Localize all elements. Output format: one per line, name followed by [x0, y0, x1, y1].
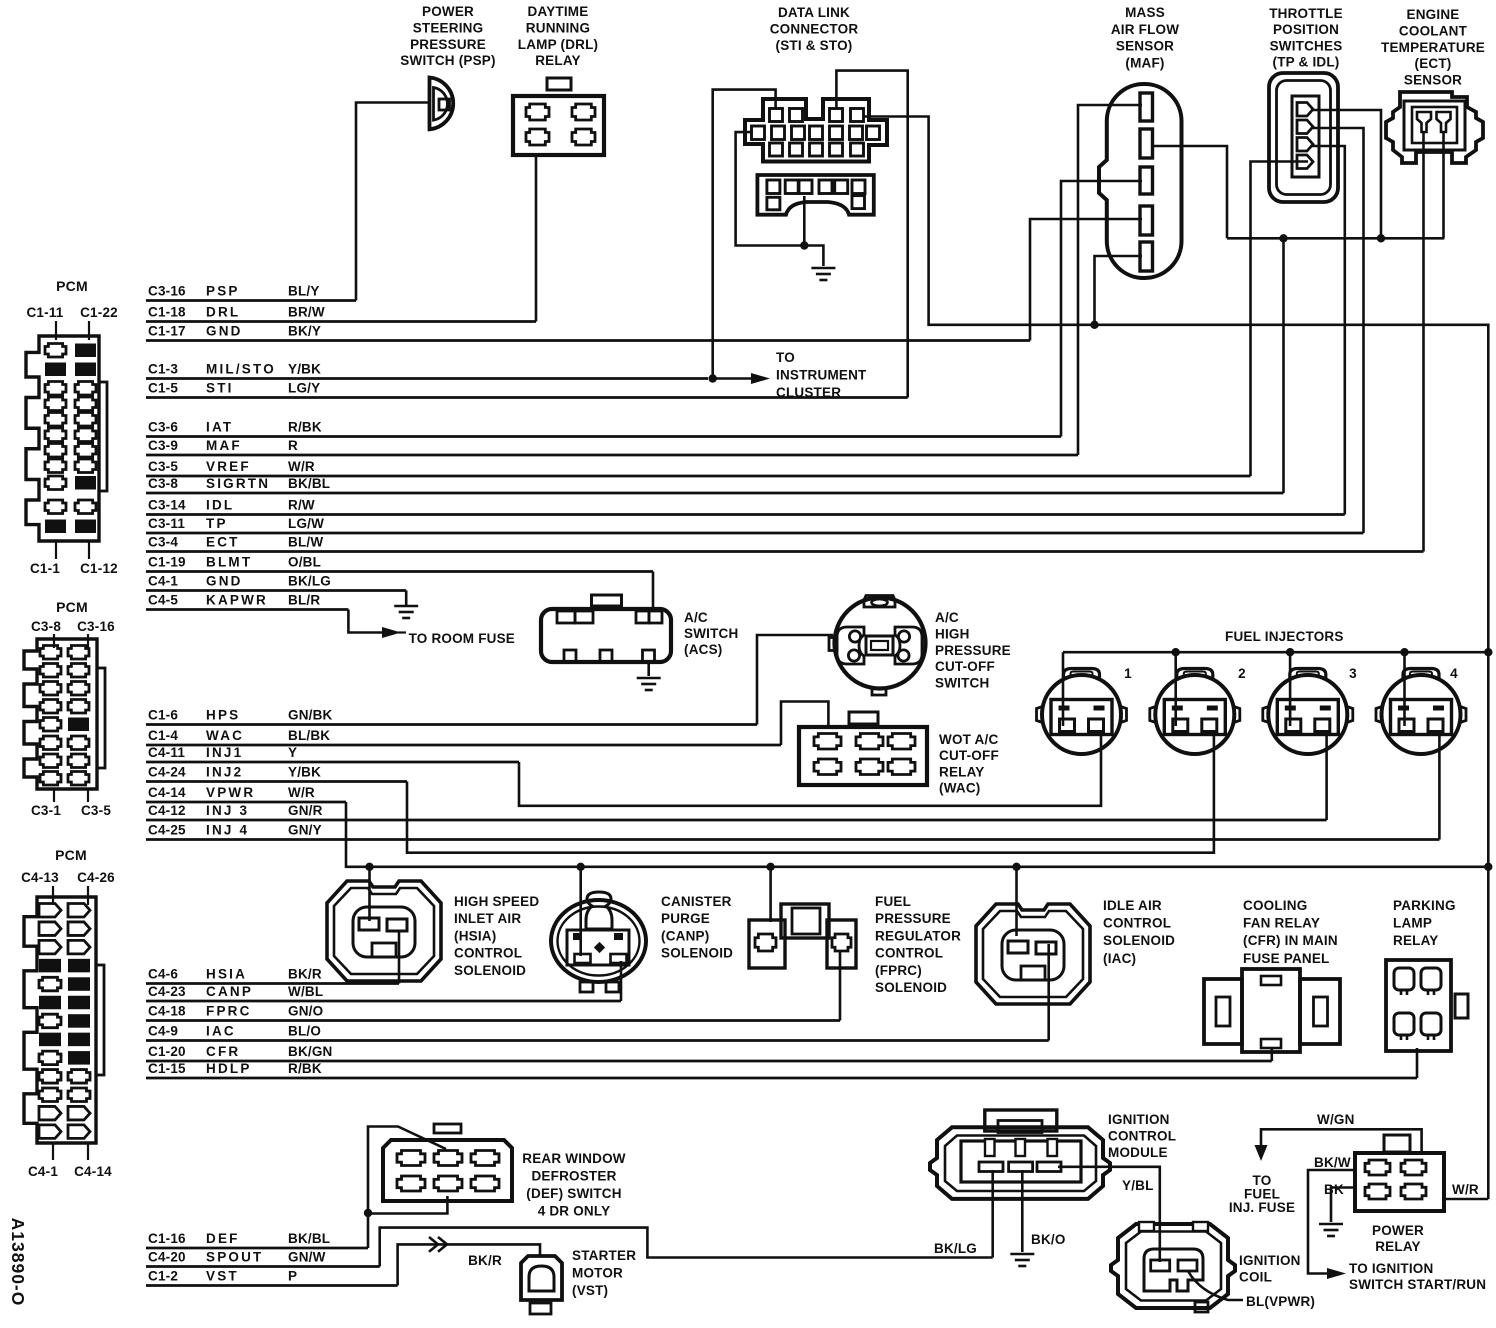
svg-text:BK/O: BK/O [1031, 1232, 1066, 1247]
svg-text:THROTTLE: THROTTLE [1269, 6, 1343, 21]
svg-text:REAR WINDOW: REAR WINDOW [522, 1151, 625, 1166]
svg-text:SENSOR: SENSOR [1404, 73, 1462, 88]
svg-text:C4-20: C4-20 [148, 1250, 186, 1265]
svg-text:RELAY: RELAY [535, 53, 581, 68]
svg-text:C4-12: C4-12 [148, 803, 186, 818]
svg-text:PCM: PCM [55, 847, 87, 863]
svg-text:(TP & IDL): (TP & IDL) [1273, 55, 1340, 70]
svg-text:DEF: DEF [206, 1231, 240, 1246]
svg-text:HIGH SPEED: HIGH SPEED [454, 894, 539, 909]
svg-text:BL/Y: BL/Y [288, 284, 320, 299]
svg-text:SWITCH: SWITCH [935, 676, 989, 691]
svg-text:Y: Y [288, 745, 297, 760]
svg-text:C3-5: C3-5 [148, 459, 178, 474]
svg-text:(WAC): (WAC) [939, 781, 981, 796]
svg-text:LG/W: LG/W [288, 516, 324, 531]
svg-text:1: 1 [1124, 666, 1132, 681]
svg-text:C3-5: C3-5 [81, 803, 111, 818]
svg-text:SWITCHES: SWITCHES [1270, 38, 1343, 53]
svg-text:DATA LINK: DATA LINK [778, 5, 850, 20]
svg-text:(DEF) SWITCH: (DEF) SWITCH [526, 1186, 621, 1201]
svg-text:TO ROOM FUSE: TO ROOM FUSE [409, 631, 515, 646]
svg-text:C4-1: C4-1 [28, 1164, 58, 1179]
svg-text:POWER: POWER [422, 4, 474, 19]
svg-text:C4-6: C4-6 [148, 967, 178, 982]
svg-text:C1-11: C1-11 [26, 305, 63, 320]
svg-text:STI: STI [206, 381, 234, 396]
svg-text:C3-11: C3-11 [148, 516, 185, 531]
svg-text:INJ1: INJ1 [206, 745, 243, 760]
svg-text:C1-4: C1-4 [148, 728, 178, 743]
svg-text:CANISTER: CANISTER [661, 894, 732, 909]
svg-text:HSIA: HSIA [206, 967, 247, 982]
svg-text:DAYTIME: DAYTIME [528, 4, 589, 19]
svg-text:ENGINE: ENGINE [1407, 7, 1460, 22]
svg-text:SENSOR: SENSOR [1116, 39, 1174, 54]
svg-text:CUT-OFF: CUT-OFF [939, 748, 999, 763]
svg-text:COIL: COIL [1239, 1270, 1272, 1285]
svg-text:INJ. FUSE: INJ. FUSE [1229, 1200, 1295, 1215]
svg-text:C1-19: C1-19 [148, 555, 186, 570]
svg-text:(IAC): (IAC) [1103, 951, 1136, 966]
svg-text:A13890-O: A13890-O [8, 1218, 28, 1307]
svg-text:INLET AIR: INLET AIR [454, 911, 521, 926]
svg-text:C1-2: C1-2 [148, 1269, 178, 1284]
svg-text:GN/Y: GN/Y [288, 823, 322, 838]
svg-text:INJ2: INJ2 [206, 765, 243, 780]
svg-text:DRL: DRL [206, 305, 240, 320]
svg-text:C4-13: C4-13 [21, 870, 59, 885]
svg-text:IGNITION: IGNITION [1239, 1253, 1301, 1268]
svg-text:R/BK: R/BK [288, 420, 322, 435]
svg-text:GN/O: GN/O [288, 1004, 323, 1019]
svg-text:R/W: R/W [288, 498, 315, 513]
svg-text:WAC: WAC [206, 728, 244, 743]
svg-text:PCM: PCM [56, 278, 88, 294]
svg-text:GN/W: GN/W [288, 1250, 326, 1265]
svg-text:POWER: POWER [1372, 1223, 1424, 1238]
svg-text:TEMPERATURE: TEMPERATURE [1381, 40, 1485, 55]
svg-text:CFR: CFR [206, 1044, 240, 1059]
svg-text:TP: TP [206, 516, 228, 531]
svg-text:TO IGNITION: TO IGNITION [1349, 1261, 1433, 1276]
svg-text:C1-15: C1-15 [148, 1061, 186, 1076]
svg-text:LG/Y: LG/Y [288, 381, 320, 396]
svg-text:(CFR) IN MAIN: (CFR) IN MAIN [1243, 933, 1338, 948]
svg-text:C4-25: C4-25 [148, 823, 186, 838]
svg-text:INSTRUMENT: INSTRUMENT [776, 367, 867, 382]
svg-text:P: P [288, 1269, 297, 1284]
svg-text:IDLE AIR: IDLE AIR [1103, 898, 1162, 913]
svg-text:VPWR: VPWR [206, 785, 255, 800]
svg-text:MOTOR: MOTOR [572, 1265, 623, 1280]
svg-text:SWITCH: SWITCH [684, 626, 738, 641]
svg-text:BK/R: BK/R [468, 1253, 502, 1268]
svg-text:RUNNING: RUNNING [526, 20, 590, 35]
svg-text:PURGE: PURGE [661, 911, 710, 926]
svg-text:SOLENOID: SOLENOID [661, 946, 733, 961]
svg-text:MIL/STO: MIL/STO [206, 362, 276, 377]
svg-text:Y/BL: Y/BL [1122, 1178, 1154, 1193]
svg-text:GN/BK: GN/BK [288, 708, 333, 723]
svg-text:(STI & STO): (STI & STO) [776, 38, 853, 53]
svg-text:C4-11: C4-11 [148, 745, 185, 760]
svg-text:CONTROL: CONTROL [1108, 1129, 1176, 1144]
svg-text:SOLENOID: SOLENOID [454, 963, 526, 978]
svg-text:W/R: W/R [1452, 1182, 1479, 1197]
svg-text:C3-8: C3-8 [31, 619, 61, 634]
svg-text:IDL: IDL [206, 498, 234, 513]
svg-text:HPS: HPS [206, 708, 240, 723]
svg-text:A/C: A/C [684, 610, 708, 625]
svg-text:C4-18: C4-18 [148, 1004, 186, 1019]
svg-text:C4-26: C4-26 [77, 870, 115, 885]
svg-text:BR/W: BR/W [288, 305, 325, 320]
svg-text:(CANP): (CANP) [661, 928, 709, 943]
svg-text:LAMP: LAMP [1393, 916, 1432, 931]
svg-text:STARTER: STARTER [572, 1248, 636, 1263]
svg-text:FUSE PANEL: FUSE PANEL [1243, 951, 1330, 966]
svg-text:C4-14: C4-14 [148, 785, 186, 800]
svg-text:BK/LG: BK/LG [934, 1241, 977, 1256]
svg-text:C1-16: C1-16 [148, 1231, 186, 1246]
svg-text:INJ 4: INJ 4 [206, 823, 249, 838]
svg-text:C3-9: C3-9 [148, 438, 178, 453]
svg-text:C3-6: C3-6 [148, 420, 178, 435]
svg-text:CANP: CANP [206, 984, 253, 999]
svg-text:SPOUT: SPOUT [206, 1250, 264, 1265]
svg-text:C1-18: C1-18 [148, 305, 186, 320]
svg-text:C1-17: C1-17 [148, 324, 186, 339]
svg-text:Y/BK: Y/BK [288, 362, 321, 377]
svg-text:RELAY: RELAY [1375, 1239, 1421, 1254]
svg-text:C1-1: C1-1 [30, 561, 60, 576]
svg-text:RELAY: RELAY [1393, 933, 1439, 948]
svg-text:GND: GND [206, 324, 243, 339]
svg-text:A/C: A/C [935, 610, 959, 625]
svg-text:C1-6: C1-6 [148, 708, 178, 723]
svg-text:TO: TO [776, 350, 795, 365]
svg-text:BL/BK: BL/BK [288, 728, 330, 743]
svg-text:C3-14: C3-14 [148, 498, 186, 513]
svg-text:C4-14: C4-14 [74, 1164, 112, 1179]
svg-text:O/BL: O/BL [288, 555, 321, 570]
svg-text:SWITCH (PSP): SWITCH (PSP) [400, 53, 495, 68]
svg-text:IGNITION: IGNITION [1108, 1112, 1170, 1127]
svg-text:W/GN: W/GN [1317, 1112, 1355, 1127]
svg-text:4: 4 [1450, 666, 1458, 681]
svg-text:BK/BL: BK/BL [288, 476, 330, 491]
svg-text:BK/LG: BK/LG [288, 574, 331, 589]
svg-text:C3-8: C3-8 [148, 476, 178, 491]
svg-text:WOT A/C: WOT A/C [939, 732, 998, 747]
svg-text:BK: BK [1324, 1182, 1344, 1197]
svg-text:(HSIA): (HSIA) [454, 928, 496, 943]
svg-text:DEFROSTER: DEFROSTER [531, 1168, 616, 1183]
svg-text:C1-3: C1-3 [148, 362, 178, 377]
svg-text:FUEL INJECTORS: FUEL INJECTORS [1225, 629, 1344, 644]
svg-text:CONNECTOR: CONNECTOR [770, 21, 859, 36]
svg-text:C3-1: C3-1 [31, 803, 61, 818]
svg-text:SOLENOID: SOLENOID [875, 980, 947, 995]
svg-text:POSITION: POSITION [1273, 22, 1339, 37]
svg-text:(ECT): (ECT) [1415, 56, 1452, 71]
svg-text:(FPRC): (FPRC) [875, 963, 922, 978]
svg-text:BK/Y: BK/Y [288, 324, 321, 339]
svg-text:3: 3 [1349, 666, 1357, 681]
svg-text:C1-20: C1-20 [148, 1044, 186, 1059]
svg-text:BL(VPWR): BL(VPWR) [1246, 1294, 1315, 1309]
svg-text:R: R [288, 438, 298, 453]
svg-text:STEERING: STEERING [413, 20, 484, 35]
svg-text:2: 2 [1238, 666, 1246, 681]
svg-text:C3-16: C3-16 [77, 619, 115, 634]
svg-text:GN/R: GN/R [288, 803, 323, 818]
svg-text:PSP: PSP [206, 284, 240, 299]
svg-text:(MAF): (MAF) [1125, 55, 1164, 70]
svg-text:Y/BK: Y/BK [288, 765, 321, 780]
svg-text:W/BL: W/BL [288, 984, 323, 999]
svg-text:C3-16: C3-16 [148, 284, 186, 299]
svg-text:VREF: VREF [206, 459, 251, 474]
svg-text:FUEL: FUEL [875, 894, 911, 909]
svg-text:W/R: W/R [288, 785, 315, 800]
svg-text:AIR FLOW: AIR FLOW [1111, 22, 1179, 37]
svg-text:C4-24: C4-24 [148, 765, 186, 780]
svg-text:IAT: IAT [206, 420, 233, 435]
svg-text:CUT-OFF: CUT-OFF [935, 659, 995, 674]
svg-text:CONTROL: CONTROL [1103, 916, 1171, 931]
svg-text:BK/BL: BK/BL [288, 1231, 330, 1246]
svg-text:IAC: IAC [206, 1024, 236, 1039]
svg-text:REGULATOR: REGULATOR [875, 928, 961, 943]
svg-text:VST: VST [206, 1269, 239, 1284]
svg-text:C4-1: C4-1 [148, 574, 178, 589]
svg-text:BL/O: BL/O [288, 1024, 321, 1039]
svg-text:ECT: ECT [206, 535, 240, 550]
svg-text:RELAY: RELAY [939, 764, 985, 779]
svg-text:PRESSURE: PRESSURE [410, 37, 486, 52]
svg-text:GND: GND [206, 574, 243, 589]
svg-text:SOLENOID: SOLENOID [1103, 933, 1175, 948]
svg-text:C4-23: C4-23 [148, 984, 186, 999]
svg-text:(VST): (VST) [572, 1283, 608, 1298]
svg-text:PRESSURE: PRESSURE [875, 911, 951, 926]
svg-text:BK/GN: BK/GN [288, 1044, 333, 1059]
svg-text:MODULE: MODULE [1108, 1145, 1168, 1160]
svg-text:4 DR ONLY: 4 DR ONLY [538, 1204, 611, 1219]
svg-text:C4-5: C4-5 [148, 593, 178, 608]
svg-text:(ACS): (ACS) [684, 642, 723, 657]
svg-text:KAPWR: KAPWR [206, 593, 268, 608]
svg-text:CLUSTER: CLUSTER [776, 385, 841, 400]
svg-text:C1-12: C1-12 [80, 561, 118, 576]
svg-text:COOLING: COOLING [1243, 898, 1307, 913]
svg-text:BL/R: BL/R [288, 593, 320, 608]
svg-text:W/R: W/R [288, 459, 315, 474]
svg-text:PCM: PCM [56, 599, 88, 615]
svg-text:PRESSURE: PRESSURE [935, 643, 1011, 658]
svg-text:MAF: MAF [206, 438, 242, 453]
svg-text:C3-4: C3-4 [148, 535, 178, 550]
svg-text:R/BK: R/BK [288, 1061, 322, 1076]
svg-text:CONTROL: CONTROL [454, 946, 522, 961]
svg-text:INJ 3: INJ 3 [206, 803, 249, 818]
svg-text:COOLANT: COOLANT [1399, 23, 1468, 38]
svg-text:FAN RELAY: FAN RELAY [1243, 916, 1320, 931]
svg-text:PARKING: PARKING [1393, 898, 1456, 913]
svg-text:HIGH: HIGH [935, 626, 970, 641]
svg-text:SIGRTN: SIGRTN [206, 476, 270, 491]
svg-text:FPRC: FPRC [206, 1004, 252, 1019]
svg-text:C4-9: C4-9 [148, 1024, 178, 1039]
svg-text:SWITCH START/RUN: SWITCH START/RUN [1349, 1277, 1486, 1292]
svg-text:C1-22: C1-22 [80, 305, 118, 320]
svg-text:HDLP: HDLP [206, 1061, 252, 1076]
svg-text:LAMP (DRL): LAMP (DRL) [518, 37, 599, 52]
svg-text:BLMT: BLMT [206, 555, 252, 570]
svg-text:BK/R: BK/R [288, 967, 322, 982]
svg-text:CONTROL: CONTROL [875, 946, 943, 961]
svg-text:BL/W: BL/W [288, 535, 323, 550]
svg-text:BK/W: BK/W [1314, 1155, 1351, 1170]
svg-text:MASS: MASS [1125, 5, 1165, 20]
svg-text:C1-5: C1-5 [148, 381, 178, 396]
